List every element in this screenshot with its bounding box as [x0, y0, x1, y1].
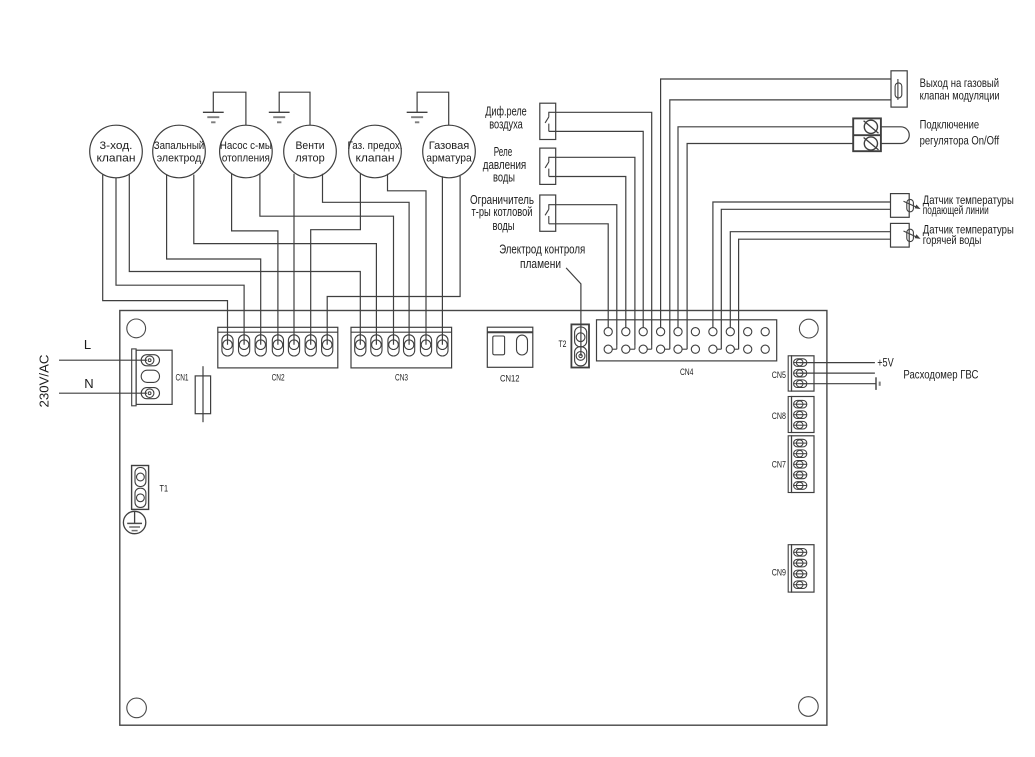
- svg-text:CN4: CN4: [680, 367, 694, 377]
- wire relay K3 boiler water temperature limiter bottom contact -> CN4: [549, 224, 608, 328]
- wire 3-way valve pin R -> CN3-1: [129, 175, 360, 345]
- flame electrode terminal T2: [571, 324, 589, 367]
- wire CN5-1 -> +5V: [800, 362, 875, 364]
- wire relay K1 air differential switch bottom contact -> CN4: [549, 131, 643, 327]
- wire fan L -> CN2-5 (straight): [293, 174, 295, 345]
- mounting hole top-right: [799, 319, 818, 338]
- jumper loop On/Off: [881, 127, 909, 144]
- connector CN5: [788, 356, 791, 391]
- wire CN4 top-7 -> flow line temp sensor (top): [713, 202, 891, 328]
- connector CN9: [788, 545, 791, 592]
- relay K1 air differential switch: [540, 103, 556, 139]
- wire N -> CN1-3: [59, 392, 147, 394]
- svg-text:CN3: CN3: [395, 372, 408, 382]
- wire flame electrode -> T2: [566, 268, 581, 356]
- svg-text:клапан модуляции: клапан модуляции: [920, 88, 1000, 102]
- wire gas safety valve R -> CN3-5: [388, 174, 427, 345]
- wire relay K2 water pressure switch top contact -> CN4: [549, 157, 635, 345]
- wire L -> CN1-1: [59, 359, 147, 361]
- wire relay K2 water pressure switch bottom contact -> CN4: [549, 177, 626, 328]
- svg-text:Подключение: Подключение: [920, 117, 980, 131]
- screw slot top: [864, 121, 879, 133]
- svg-text:L: L: [84, 337, 91, 352]
- svg-text:CN8: CN8: [772, 411, 786, 421]
- wire relay K1 air differential switch top contact -> CN4: [549, 112, 652, 345]
- load circle "3-ход. клапан" (3-way valve): [90, 125, 143, 178]
- svg-text:CN5: CN5: [772, 370, 786, 380]
- svg-text:Газ. предох.: Газ. предох.: [348, 140, 403, 152]
- wire CN4 bottom-5 -> On/Off regulator (bottom): [682, 348, 687, 350]
- load circle "Запальный электрод" (ignition electrode): [153, 125, 206, 178]
- svg-text:Газовая: Газовая: [429, 140, 470, 152]
- svg-text:CN7: CN7: [772, 459, 786, 469]
- svg-text:Запальный: Запальный: [154, 140, 205, 152]
- svg-text:Электрод контроля: Электрод контроля: [499, 242, 585, 257]
- svg-text:230V/AC: 230V/AC: [37, 354, 52, 407]
- ground symbol above pump circle + wire: [213, 92, 246, 125]
- svg-text:воды: воды: [493, 218, 515, 233]
- svg-text:3-ход.: 3-ход.: [100, 140, 133, 152]
- load circle "Насос с-мы отопления" (heating pump): [220, 125, 273, 178]
- On/Off regulator terminal block: [853, 118, 881, 151]
- svg-text:T2: T2: [559, 339, 567, 349]
- svg-text:воздуха: воздуха: [489, 117, 523, 132]
- wire CN4 bottom-4 -> gas modulation valve (bottom): [665, 348, 670, 350]
- connector CN12: [487, 327, 533, 367]
- svg-text:Насос с-мы: Насос с-мы: [220, 140, 272, 152]
- svg-text:горячей воды: горячей воды: [923, 233, 982, 247]
- ground symbol above gas armature circle + wire: [417, 92, 449, 125]
- screw slot bottom: [864, 138, 879, 150]
- wire CN4 top-8 -> DHW temp sensor (top): [730, 232, 890, 328]
- wire CN4 bottom-7 -> flow line temp sensor (bottom): [717, 348, 721, 350]
- wire 3-way valve pin M -> CN2-2: [116, 178, 244, 345]
- svg-text:воды: воды: [493, 170, 515, 185]
- svg-text:лятор: лятор: [295, 152, 325, 164]
- load circle "Венти лятор" (fan): [284, 125, 337, 178]
- svg-text:отопления: отопления: [222, 152, 270, 164]
- svg-text:CN9: CN9: [772, 568, 786, 578]
- load circle "Газ. предох. клапан" (gas safety valve): [349, 125, 402, 178]
- connector CN8: [788, 397, 791, 433]
- connector CN7: [788, 436, 791, 493]
- wire CN4 top-4 -> gas modulation valve (top): [661, 79, 891, 328]
- svg-text:T1: T1: [160, 484, 169, 494]
- wire fan R -> CN3-4: [323, 174, 410, 345]
- fuse F1: [202, 366, 204, 422]
- wire jog CN4 bottom pin 3: [647, 348, 651, 350]
- wire jog CN4 bottom pin 2: [630, 348, 635, 350]
- wire ignition electrode R -> CN3-2: [194, 175, 377, 345]
- svg-text:клапан: клапан: [97, 152, 136, 164]
- svg-text:электрод: электрод: [157, 152, 202, 164]
- connector CN4: [597, 320, 777, 361]
- connector CN1: [132, 349, 136, 406]
- mounting hole bottom-left: [127, 698, 147, 718]
- board outline PCB: [120, 311, 827, 726]
- gas modulation valve connector: [891, 71, 907, 107]
- svg-text:т-ры котловой: т-ры котловой: [472, 204, 533, 219]
- connector CN3 terminal strip: [351, 327, 452, 368]
- wire jog CN4 bottom pin 1: [612, 348, 617, 350]
- wire 3-way valve pin L -> CN2-1: [103, 175, 228, 345]
- wire ignition electrode L -> CN2-3: [167, 175, 261, 345]
- signal ground symbol (rotated earth): [875, 377, 877, 390]
- svg-text:подающей линии: подающей линии: [923, 203, 989, 217]
- svg-text:арматура: арматура: [426, 152, 472, 164]
- connector CN2 terminal strip: [218, 327, 338, 368]
- svg-text:регулятора On/Off: регулятора On/Off: [920, 133, 1000, 147]
- wire gas armature R -> CN2-7: [327, 176, 460, 345]
- svg-text:CN2: CN2: [272, 372, 285, 382]
- transformer terminal T1: [132, 466, 149, 510]
- mounting hole top-left: [127, 319, 146, 338]
- mounting hole bottom-right: [799, 697, 819, 717]
- svg-text:+5V: +5V: [877, 356, 894, 370]
- svg-text:CN12: CN12: [500, 373, 520, 383]
- wire CN5-3 -> signal ground: [800, 383, 876, 385]
- relay K2 water pressure switch: [540, 148, 556, 184]
- protective earth symbol PE: [123, 511, 145, 533]
- DHW temperature sensor: [891, 223, 910, 247]
- wire CN5-2 flow meter signal: [800, 372, 875, 374]
- svg-text:клапан: клапан: [356, 152, 395, 164]
- ground symbol above fan circle + wire: [279, 92, 310, 125]
- wire gas armature L -> CN3-6 (straight): [441, 176, 443, 344]
- svg-text:Венти: Венти: [296, 140, 325, 152]
- svg-text:N: N: [84, 376, 93, 391]
- wire gas safety valve L -> CN2-6: [311, 174, 361, 345]
- wire pump L -> CN2-4: [232, 174, 278, 345]
- wire relay K3 boiler water temperature limiter top contact -> CN4: [549, 205, 617, 345]
- wire pump R -> CN3-3: [260, 174, 394, 345]
- wire CN4 bottom-8 -> DHW temp sensor (bottom): [734, 348, 738, 350]
- svg-text:CN1: CN1: [176, 373, 189, 383]
- svg-text:Расходомер ГВС: Расходомер ГВС: [903, 368, 978, 382]
- wire CN4 top-5 -> On/Off regulator (top): [678, 127, 853, 328]
- svg-text:пламени: пламени: [520, 256, 561, 271]
- flow line temperature sensor: [891, 194, 910, 218]
- load circle "Газовая арматура" (gas armature): [423, 125, 476, 178]
- relay K3 boiler water temperature limiter: [540, 195, 556, 231]
